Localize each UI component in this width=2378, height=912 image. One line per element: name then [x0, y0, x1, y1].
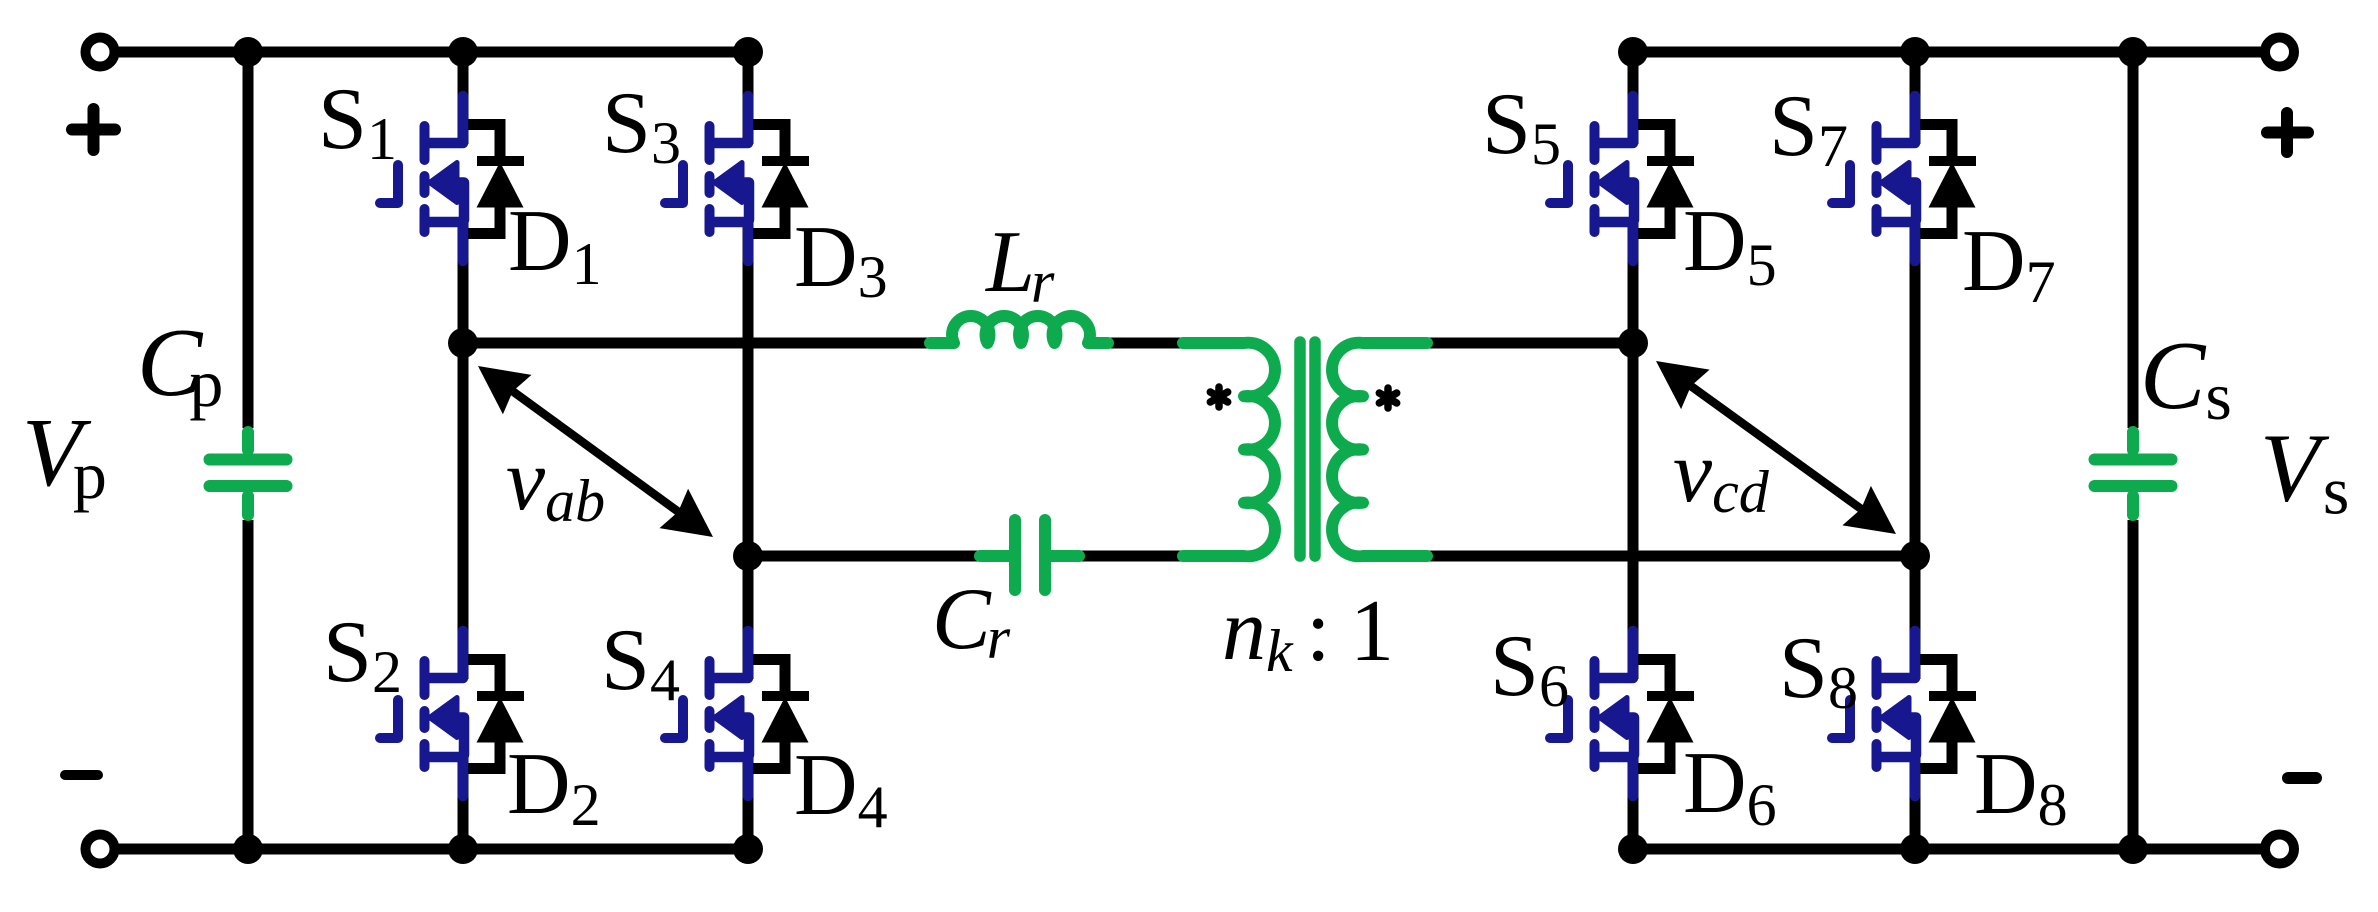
- svg-text:D6: D6: [1683, 735, 1777, 838]
- capacitor Cp: [210, 432, 287, 515]
- svg-text:vcd: vcd: [1673, 424, 1770, 525]
- wire leg a middle: [458, 221, 469, 679]
- svg-text:D2: D2: [507, 736, 601, 838]
- junction top leg a: [448, 37, 478, 67]
- capacitor Cs: [2095, 432, 2172, 515]
- svg-text:Vs: Vs: [2260, 415, 2349, 529]
- diode D1: [463, 125, 525, 234]
- svg-text:S6: S6: [1490, 618, 1569, 719]
- junction bottom leg a: [448, 834, 478, 864]
- wire leg d upper: [1910, 52, 1921, 144]
- capacitor Cr: [980, 520, 1079, 590]
- svg-text::: :: [1306, 583, 1330, 680]
- diode D2: [463, 660, 525, 769]
- polarity dot secondary (asterisk): [1379, 388, 1396, 408]
- svg-text:D4: D4: [794, 737, 888, 840]
- polarity dot primary (asterisk): [1210, 387, 1227, 407]
- svg-text:Vp: Vp: [22, 399, 107, 513]
- svg-text:S8: S8: [1779, 620, 1858, 721]
- svg-text:Cs: Cs: [2140, 322, 2232, 434]
- junction bottom leg d: [1900, 834, 1930, 864]
- diode D5: [1633, 125, 1695, 234]
- svg-text:D3: D3: [794, 209, 888, 310]
- wire leg b middle: [743, 221, 754, 679]
- terminal - output: [2265, 835, 2294, 864]
- wire Cp branch lower: [243, 520, 254, 849]
- junction top leg b: [733, 37, 763, 67]
- node b: [733, 541, 763, 571]
- arrow vcd: [1656, 361, 1896, 534]
- wire leg c lower: [1628, 756, 1639, 849]
- svg-text:Cr: Cr: [932, 571, 1011, 671]
- wire leg b upper: [743, 52, 754, 144]
- transistor S6: [1550, 631, 1634, 796]
- transformer secondary winding: [1332, 343, 1427, 557]
- node c: [1618, 328, 1648, 358]
- wire leg d lower: [1910, 756, 1921, 849]
- terminal - input: [86, 835, 115, 864]
- junction bottom Cp: [233, 834, 263, 864]
- transistor S2: [380, 631, 464, 796]
- plus sign input: [72, 109, 115, 150]
- wire Cs branch upper: [2128, 52, 2139, 428]
- wire leg a upper: [458, 52, 469, 144]
- wire transformer secondary bottom to node d: [1422, 551, 1915, 562]
- junction top Cp: [233, 37, 263, 67]
- diode D3: [748, 125, 810, 234]
- node d: [1900, 541, 1930, 571]
- junction top leg c: [1618, 37, 1648, 67]
- wire Cp branch upper: [243, 52, 254, 428]
- junction bottom leg b: [733, 834, 763, 864]
- junction top leg d: [1900, 37, 1930, 67]
- transistor S3: [665, 96, 749, 261]
- diode D8: [1915, 660, 1977, 769]
- wire bottom rail left: [117, 844, 748, 855]
- junction bottom leg c: [1618, 834, 1648, 864]
- wire leg c upper: [1628, 52, 1639, 144]
- wire top rail right: [1633, 47, 2263, 58]
- svg-text:D8: D8: [1974, 736, 2068, 838]
- wire Cs branch lower: [2128, 520, 2139, 849]
- svg-text:Lr: Lr: [984, 214, 1055, 315]
- svg-text:S7: S7: [1769, 78, 1848, 179]
- diode D6: [1633, 660, 1695, 769]
- svg-text:D1: D1: [508, 193, 602, 297]
- node a: [448, 328, 478, 358]
- junction top Cs: [2118, 37, 2148, 67]
- junction bottom Cs: [2118, 834, 2148, 864]
- svg-text:S1: S1: [318, 71, 397, 172]
- wire node b to Cr: [748, 551, 980, 562]
- svg-text:S4: S4: [601, 612, 680, 713]
- diode D7: [1915, 125, 1977, 234]
- wire Cr to transformer primary bottom: [1079, 551, 1182, 562]
- diode D4: [748, 660, 810, 769]
- wire Lr to transformer primary top: [1108, 338, 1182, 349]
- svg-text:S3: S3: [602, 75, 681, 176]
- transistor S8: [1832, 631, 1916, 796]
- svg-text:D5: D5: [1683, 193, 1777, 298]
- svg-text:nk: nk: [1222, 582, 1294, 684]
- wire node a to Lr: [463, 338, 930, 349]
- transistor S5: [1550, 96, 1634, 261]
- transistor S7: [1832, 96, 1916, 261]
- minus sign input: [65, 770, 98, 780]
- wire leg c middle: [1628, 221, 1639, 679]
- transistor S4: [665, 631, 749, 796]
- transformer primary winding: [1183, 343, 1275, 557]
- plus sign output: [2267, 113, 2308, 152]
- svg-text:1: 1: [1350, 583, 1394, 680]
- terminal + input: [86, 38, 115, 67]
- wire leg d middle: [1910, 221, 1921, 679]
- wire bottom rail right: [1633, 844, 2263, 855]
- wire leg b lower: [743, 756, 754, 849]
- minus sign output: [2288, 772, 2316, 784]
- svg-text:Cp: Cp: [137, 309, 223, 421]
- arrow vab: [478, 366, 713, 537]
- inductor Lr: [930, 316, 1108, 343]
- wire transformer secondary top to node c: [1422, 338, 1633, 349]
- terminal + output: [2265, 38, 2294, 67]
- wire top rail left: [117, 47, 748, 58]
- svg-text:D7: D7: [1962, 213, 2056, 315]
- wire leg a lower: [458, 756, 469, 849]
- svg-text:S2: S2: [323, 604, 402, 705]
- svg-text:S5: S5: [1482, 76, 1561, 177]
- transistor S1: [380, 96, 464, 261]
- transformer core: [1300, 342, 1315, 556]
